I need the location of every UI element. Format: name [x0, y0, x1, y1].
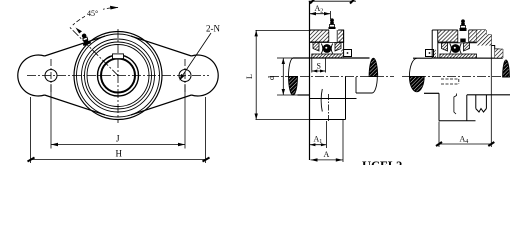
hidden lines right view	[441, 78, 459, 80]
grease zerk on boss at 135deg	[80, 32, 91, 46]
boss right face	[343, 30, 345, 58]
left shaft stub top edge	[413, 57, 432, 59]
wall hatch patches	[477, 30, 492, 46]
wall profile upper	[486, 30, 499, 58]
d dimension	[277, 58, 298, 95]
boss left faces	[431, 30, 433, 58]
svg-text:UCFL2: UCFL2	[362, 159, 402, 165]
bolt hole right	[179, 70, 191, 82]
svg-text:d: d	[267, 76, 276, 80]
S dimension	[312, 59, 326, 73]
set screw right view	[434, 49, 436, 58]
bearing internals right view	[442, 43, 448, 51]
H dimension	[31, 97, 206, 163]
ball right view	[451, 44, 460, 53]
shaft left break upper arc	[289, 58, 294, 76]
bolt hole centerline left	[50, 59, 52, 92]
A1 dimension	[325, 121, 327, 148]
shaft centerline	[402, 76, 510, 78]
circle r33.5	[85, 42, 152, 109]
circle r31	[87, 45, 149, 107]
left break upper arc	[409, 58, 416, 76]
shaft left break hatched half ellipse	[289, 77, 298, 96]
collar strip hatched	[312, 54, 344, 58]
shaft top edge	[293, 57, 370, 59]
bolt hole left	[45, 70, 57, 82]
zerk (middle view)	[329, 18, 336, 42]
shaft right break hatched upper half ellipse	[369, 58, 378, 76]
svg-text:A: A	[324, 150, 330, 159]
circle r20.5	[98, 55, 139, 96]
circle r36.5	[82, 39, 155, 112]
svg-text:S: S	[317, 62, 321, 71]
right shaft break upper half ellipse	[503, 60, 510, 77]
2-N leader arrow	[181, 33, 212, 79]
boss circle r44	[74, 32, 162, 120]
bolt hole centerline right	[184, 59, 186, 92]
flange tangent line bottom-left	[45, 95, 105, 115]
L dimension	[256, 30, 310, 119]
shaft bottom right of wall	[467, 94, 510, 96]
outer ring section left	[313, 43, 319, 52]
A2 dimension	[310, 13, 331, 15]
flange tangent line top-right	[131, 36, 191, 56]
zerk (right view)	[460, 19, 467, 42]
A dimension	[342, 120, 344, 162]
shaft right lower corner arc	[372, 77, 377, 93]
outer ring section right	[335, 43, 341, 52]
shaft top through housing and wall	[432, 57, 502, 59]
svg-text:45°: 45°	[87, 9, 98, 18]
shaft lower step	[356, 92, 372, 94]
set screw	[341, 49, 343, 58]
svg-text:J: J	[116, 134, 120, 144]
svg-text:L: L	[245, 74, 254, 79]
raceway arcs	[321, 44, 323, 54]
vertical centerline	[117, 29, 119, 123]
flange outline	[18, 55, 45, 96]
flange tangent line top-left	[45, 36, 105, 56]
horizontal centerline	[27, 75, 209, 77]
collar strip right view	[440, 54, 477, 58]
lower body right view	[439, 93, 476, 120]
45deg radial centerline	[69, 27, 118, 76]
flange tangent line bottom-right	[131, 95, 191, 115]
housing top band hatched	[310, 29, 344, 43]
left break hatched lower half ellipse	[409, 77, 424, 92]
svg-text:H: H	[116, 149, 123, 159]
svg-text:2-N: 2-N	[206, 24, 220, 34]
A4 dimension	[439, 46, 491, 147]
ball	[323, 44, 332, 53]
shaft centerline	[270, 76, 394, 78]
top dimension line	[309, 0, 356, 2]
J dimension	[51, 84, 185, 149]
plate face line	[309, 1, 311, 160]
shaft bottom edge left	[298, 94, 310, 96]
hatched top band	[438, 30, 477, 42]
lower wall band with break teeth	[476, 95, 487, 112]
left stub bottom edge	[424, 92, 439, 94]
circle r41.5	[77, 34, 160, 117]
keyway notch at bore top	[113, 54, 124, 59]
lower body	[310, 77, 357, 120]
bolt centerline lower	[328, 94, 330, 123]
bore circle r17 thick	[101, 59, 135, 93]
housing top edge	[432, 29, 486, 31]
45deg dimension arc	[73, 8, 118, 26]
